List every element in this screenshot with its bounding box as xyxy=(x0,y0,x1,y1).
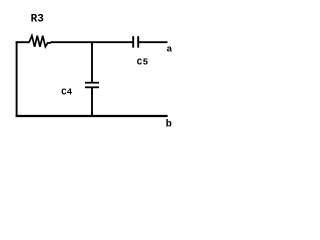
resistor R3 xyxy=(29,36,51,47)
svg-text:C5: C5 xyxy=(137,57,149,67)
node junction to C4 xyxy=(91,42,93,83)
wire top right segment xyxy=(138,41,167,43)
capacitor C4 bottom plate xyxy=(85,86,99,88)
capacitor C5 left plate xyxy=(132,36,134,48)
capacitor C4 top plate xyxy=(85,82,99,84)
svg-text:R3: R3 xyxy=(31,14,45,26)
svg-text:b: b xyxy=(166,119,172,131)
svg-text:C4: C4 xyxy=(61,87,72,97)
wire left rail xyxy=(16,41,18,117)
wire top-left segment xyxy=(16,41,30,43)
wire top middle segment xyxy=(51,41,134,43)
capacitor C5 right plate xyxy=(137,36,139,48)
wire C4 to bottom rail xyxy=(91,87,93,116)
svg-text:a: a xyxy=(167,44,173,55)
wire bottom rail xyxy=(16,115,168,117)
